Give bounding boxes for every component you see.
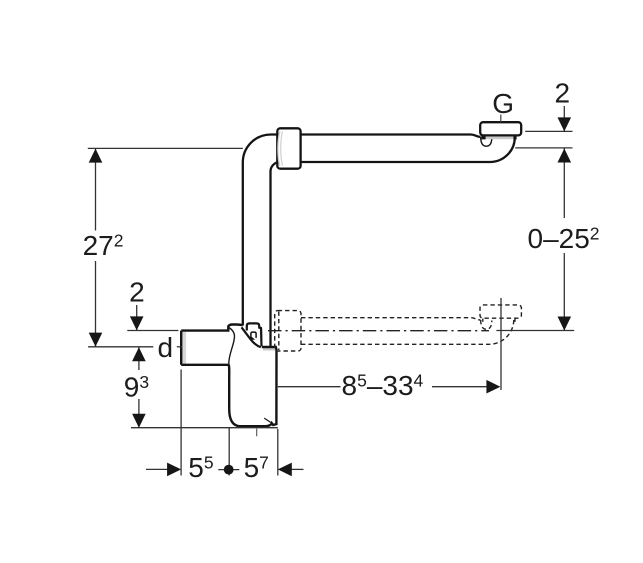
svg-text:2: 2: [129, 277, 145, 308]
svg-text:0–252: 0–252: [528, 223, 600, 254]
svg-text:2: 2: [555, 77, 571, 108]
svg-text:d: d: [158, 332, 174, 363]
svg-text:G: G: [492, 88, 514, 119]
svg-text:85–334: 85–334: [342, 370, 424, 401]
